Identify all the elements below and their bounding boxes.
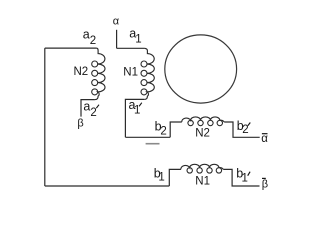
winding N2 loop turns (92, 61, 98, 67)
svg-text:N1: N1 (195, 176, 210, 188)
svg-text:N2: N2 (74, 66, 89, 78)
wire: from N1 to terminal b1' and beta-bar output (223, 169, 259, 186)
svg-text:a1: a1 (129, 27, 142, 46)
transformer winding N2 (vertical, terminals a2-a2') (95, 48, 105, 100)
svg-text:b1: b1 (154, 166, 165, 183)
alpha-bar overline (262, 133, 268, 135)
wire: N2 bottom lead to open terminal a2' (node beta) (81, 100, 95, 117)
svg-text:a2: a2 (83, 28, 96, 48)
winding N1 loop turns (141, 61, 147, 67)
svg-text:β: β (262, 179, 268, 191)
wire: middle row bottom horizontal (125, 136, 170, 138)
wire: bottom bus horizontal (45, 185, 170, 187)
transformer winding N1 (vertical, terminals a1-a1') (144, 48, 154, 99)
prime tick of a2' (96, 105, 99, 109)
svg-text:b2: b2 (155, 120, 167, 138)
wire: N1 bottom lead down to node a1' (125, 99, 144, 137)
prime tick of a1' (139, 103, 142, 107)
svg-text:α: α (113, 16, 120, 28)
winding N2 horizontal loop turns (188, 120, 193, 125)
svg-text:b1: b1 (236, 167, 248, 185)
svg-text:a2: a2 (83, 100, 96, 119)
svg-text:α: α (261, 133, 268, 145)
transformer winding N2 (horizontal, terminals b2-b2') (182, 117, 224, 122)
svg-text:β: β (77, 117, 83, 129)
transformer winding N1 (horizontal, terminals b1-b1') (181, 164, 223, 169)
wire: alpha input stub (116, 30, 118, 49)
svg-text:N2: N2 (195, 128, 210, 140)
wire: left bus vertical (44, 48, 46, 186)
wire: riser from bottom bus to terminal b1 (169, 169, 181, 186)
svg-text:b2: b2 (237, 119, 249, 136)
winding N1 horizontal loop turns (187, 168, 192, 173)
wire: top horizontal from alpha stub to winding N1 (117, 47, 145, 49)
prime tick of b1' (248, 172, 250, 176)
wire: from N2 to terminal b2' and alpha-bar output (224, 122, 260, 137)
wire: riser to terminal b2 (170, 122, 182, 137)
beta-bar overline (262, 177, 266, 179)
svg-text:a1: a1 (129, 98, 141, 117)
svg-text:N1: N1 (123, 67, 138, 79)
rotor circle (machine) (165, 35, 237, 103)
polarity dash under b2 (146, 143, 160, 145)
prime tick of b2' (248, 123, 250, 126)
wire: top-left horizontal to winding N2 (45, 47, 97, 49)
